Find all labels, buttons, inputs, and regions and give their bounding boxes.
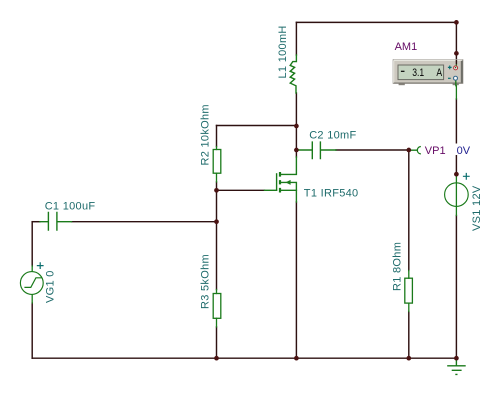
wire right column ammeter- to VS1 [455, 99, 457, 174]
transistor T1 channel dashes [279, 172, 281, 193]
svg-text:3.1: 3.1 [412, 67, 424, 79]
wire R1 bottom to rail [408, 312, 410, 359]
ammeter feet [399, 83, 405, 85]
transistor T1 drain link and lead [280, 157, 296, 174]
junction rail source [294, 356, 299, 361]
transistor T1 gate lead [265, 189, 277, 191]
capacitor C1 [40, 213, 72, 231]
wire R2 bottom to gate node [216, 182, 218, 190]
generator VG1 waveform [25, 278, 41, 288]
junction VS1 top [454, 172, 459, 177]
ammeter AM1 [393, 60, 463, 87]
svg-text:VS1 12V: VS1 12V [471, 185, 483, 231]
junction rail R1 [406, 356, 411, 361]
svg-text:AM1: AM1 [395, 41, 418, 53]
capacitor C2 [296, 142, 336, 158]
wire C1 left corner [32, 221, 40, 223]
resistor R1 body [405, 278, 413, 303]
source VS1 lead line [455, 174, 457, 215]
ammeter minus lead [455, 81, 457, 100]
transistor T1 source link and lead [280, 190, 296, 202]
wire bottom rail [32, 357, 456, 359]
ammeter minus mark [448, 77, 451, 79]
svg-text:C2 10mF: C2 10mF [309, 130, 356, 142]
junction L1/R2 [294, 124, 299, 129]
junction C1 [214, 219, 219, 224]
wire L1 top lead [295, 22, 297, 55]
transistor T1 body link [280, 182, 296, 190]
junction rail ground [454, 356, 459, 361]
generator VG1 circle [20, 272, 43, 295]
ammeter plus mark [448, 66, 452, 70]
ammeter reading minus [401, 70, 405, 72]
resistor R2 body [213, 150, 221, 174]
wire top rail [296, 21, 456, 23]
resistor R3 leads [216, 290, 218, 328]
junction VP1 [406, 148, 411, 153]
generator VG1 leads [31, 266, 33, 303]
ammeter minus terminal [454, 76, 458, 80]
ground [448, 358, 465, 374]
wire over ammeter to plus terminal [455, 60, 457, 64]
wire R2 top row [217, 125, 297, 127]
wire L1 bottom to C2 node and drain [295, 93, 297, 157]
junction rail R3 [214, 356, 219, 361]
ammeter body [393, 60, 463, 84]
wire node column R2 to C1 node [216, 190, 218, 221]
resistor R2 leads [216, 147, 218, 183]
wire VG1 bottom to rail [31, 303, 33, 358]
wire VS1 bottom to rail [455, 216, 457, 359]
transistor T1 body arrow [286, 180, 291, 185]
wire gate row [217, 189, 265, 191]
svg-text:C1 100uF: C1 100uF [45, 201, 96, 213]
resistor R1 leads [408, 271, 410, 312]
svg-text:0V: 0V [457, 145, 471, 157]
wire MOSFET source to rail [295, 202, 297, 358]
probe VP1 hook [411, 147, 420, 154]
wire C1 row right [72, 221, 217, 223]
svg-text:R2 10kOhm: R2 10kOhm [200, 104, 212, 165]
resistor R3 body [213, 294, 221, 319]
svg-text:L1 100mH: L1 100mH [277, 25, 289, 78]
plus sign VS1 [464, 174, 470, 180]
transistor T1 gate bar [276, 174, 278, 190]
svg-text:T1 IRF540: T1 IRF540 [304, 188, 359, 200]
svg-text:R1 8Ohm: R1 8Ohm [392, 242, 404, 291]
wire R3 bottom to rail [216, 327, 218, 358]
wire left column to VG1 [31, 222, 33, 266]
ammeter plus terminal [454, 66, 458, 70]
junction top right [454, 20, 459, 25]
plus sign VG1 [37, 263, 43, 269]
svg-text:VP1: VP1 [425, 145, 446, 157]
svg-text:A: A [436, 67, 442, 79]
source VS1 circle [445, 183, 469, 207]
junction above ammeter [454, 51, 459, 56]
wire right column upper (to ammeter +) [455, 22, 457, 65]
wire R1 top [408, 150, 410, 271]
wire R2 top lead [216, 126, 218, 147]
wire C2 right to VP1 node [336, 149, 409, 151]
wire R3 top [216, 222, 218, 290]
junction gate [214, 188, 219, 193]
svg-text:R3 5kOhm: R3 5kOhm [200, 254, 212, 309]
junction C2 left [294, 148, 299, 153]
ammeter LCD [398, 65, 444, 80]
inductor L1 [290, 55, 296, 93]
svg-text:VG1 0: VG1 0 [45, 270, 57, 303]
node 0V background [454, 144, 472, 156]
